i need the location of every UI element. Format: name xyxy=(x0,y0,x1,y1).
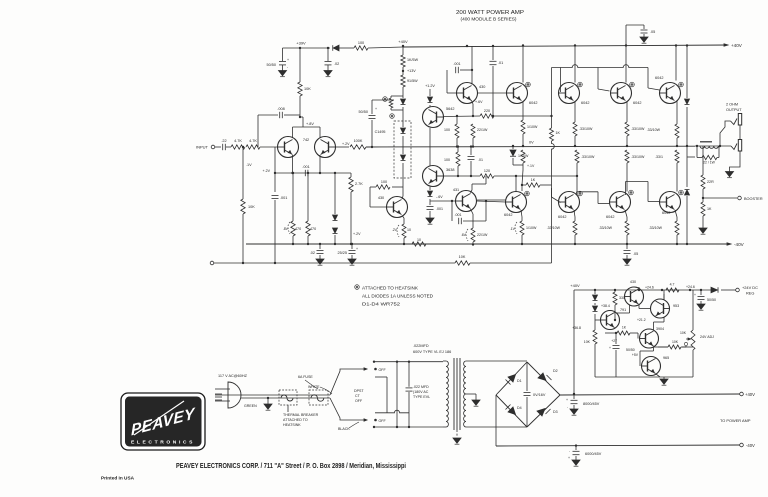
svg-text:91/5W: 91/5W xyxy=(407,79,418,83)
svg-text:22/1W: 22/1W xyxy=(477,233,488,237)
svg-text:.001: .001 xyxy=(455,213,462,217)
svg-text:1K: 1K xyxy=(622,326,627,330)
svg-text:GREEN: GREEN xyxy=(244,404,257,408)
svg-text:10K: 10K xyxy=(584,340,591,344)
svg-text:.001: .001 xyxy=(280,196,287,200)
svg-text:+.6V: +.6V xyxy=(475,100,483,104)
svg-text:BLACK: BLACK xyxy=(338,427,350,431)
svg-text:PEAVEY ELECTRONICS CORP. / 711: PEAVEY ELECTRONICS CORP. / 711 "A" Stree… xyxy=(176,463,406,470)
svg-text:.22: .22 xyxy=(221,139,226,143)
svg-text:+24V DC: +24V DC xyxy=(742,285,758,290)
svg-text:+1.2V: +1.2V xyxy=(425,84,435,88)
svg-text:742: 742 xyxy=(303,138,309,142)
svg-text:+24.6: +24.6 xyxy=(686,285,695,289)
svg-text:6A FUSE: 6A FUSE xyxy=(298,375,313,379)
svg-text:+: + xyxy=(566,398,568,402)
svg-text:+40V: +40V xyxy=(570,283,580,288)
svg-text:+: + xyxy=(694,293,696,297)
svg-text:D1: D1 xyxy=(517,379,522,383)
svg-text:6000/45V: 6000/45V xyxy=(585,452,602,456)
svg-text:1K/5W: 1K/5W xyxy=(407,58,419,62)
svg-text:2 OHM: 2 OHM xyxy=(726,103,738,107)
svg-text:.02: .02 xyxy=(334,62,339,66)
svg-text:600V TYPE VL EJ 186: 600V TYPE VL EJ 186 xyxy=(413,350,451,354)
svg-text:.33/1: .33/1 xyxy=(655,155,663,159)
svg-text:ELECTRONICS: ELECTRONICS xyxy=(131,440,195,445)
svg-text:+: + xyxy=(356,247,358,251)
svg-text:-.6V: -.6V xyxy=(436,195,443,199)
svg-text:8000/45V: 8000/45V xyxy=(583,402,600,406)
svg-text:ALL DIODES 1A UNLESS NOTED: ALL DIODES 1A UNLESS NOTED xyxy=(362,294,433,299)
svg-text:.001: .001 xyxy=(436,207,443,211)
svg-text:2.7K: 2.7K xyxy=(355,182,363,186)
svg-text:+24.6: +24.6 xyxy=(645,286,654,290)
svg-text:0V: 0V xyxy=(529,141,534,145)
svg-text:22 / 1W: 22 / 1W xyxy=(703,161,715,165)
svg-text:REG: REG xyxy=(746,291,754,296)
svg-text:D1-D4 WR752: D1-D4 WR752 xyxy=(362,302,401,307)
svg-text:OFF: OFF xyxy=(379,368,387,372)
svg-text:1K: 1K xyxy=(707,207,712,211)
svg-text:TYPE EVL: TYPE EVL xyxy=(413,395,430,399)
svg-text:100: 100 xyxy=(358,41,364,45)
svg-text:50/50: 50/50 xyxy=(358,110,368,114)
svg-text:+: + xyxy=(375,107,377,111)
svg-text:.33/10W: .33/10W xyxy=(631,127,645,131)
svg-text:.05: .05 xyxy=(650,30,655,34)
svg-text:0V/16V: 0V/16V xyxy=(533,393,546,397)
svg-text:ATTACHED TO HEATSINK: ATTACHED TO HEATSINK xyxy=(362,286,418,291)
svg-text:100: 100 xyxy=(444,158,450,162)
svg-text:430: 430 xyxy=(630,280,636,284)
svg-text:.33/10W: .33/10W xyxy=(581,155,595,159)
svg-text:.022 MFD: .022 MFD xyxy=(413,385,429,389)
svg-text:Printed in USA: Printed in USA xyxy=(101,476,135,481)
svg-text:5642: 5642 xyxy=(446,107,454,111)
svg-text:10: 10 xyxy=(407,228,411,232)
svg-text:OFF: OFF xyxy=(379,419,387,423)
svg-text:100: 100 xyxy=(381,180,387,184)
svg-text:6042: 6042 xyxy=(662,211,670,215)
svg-text:6042: 6042 xyxy=(633,101,641,105)
svg-text:.2V: .2V xyxy=(392,228,398,232)
svg-text:1/10W: 1/10W xyxy=(526,226,537,230)
svg-text:(400 MODULE B SERIES): (400 MODULE B SERIES) xyxy=(461,17,518,22)
svg-text:+36.8: +36.8 xyxy=(572,326,581,330)
svg-text:OFF: OFF xyxy=(355,399,363,403)
svg-text:+: + xyxy=(568,456,570,460)
svg-text:+21.2: +21.2 xyxy=(637,318,646,322)
svg-text:6042: 6042 xyxy=(606,215,614,219)
svg-text:24V ADJ: 24V ADJ xyxy=(700,335,714,339)
svg-text:4.7K: 4.7K xyxy=(234,139,242,143)
svg-text:6042: 6042 xyxy=(529,101,537,105)
svg-text:WHITE: WHITE xyxy=(308,385,320,389)
svg-text:+5V: +5V xyxy=(632,353,639,357)
svg-text:953: 953 xyxy=(673,304,679,308)
svg-text:.05: .05 xyxy=(633,252,638,256)
svg-text:.33/10W: .33/10W xyxy=(647,128,661,132)
svg-text:-40V: -40V xyxy=(734,242,745,247)
svg-text:.001: .001 xyxy=(302,165,309,169)
svg-text:430: 430 xyxy=(378,196,384,200)
svg-text:50/50: 50/50 xyxy=(266,63,276,67)
svg-text:470: 470 xyxy=(310,227,316,231)
svg-text:6042: 6042 xyxy=(581,101,589,105)
svg-text:6042: 6042 xyxy=(655,76,663,80)
svg-text:ATTACHED TO: ATTACHED TO xyxy=(283,418,308,422)
svg-text:430: 430 xyxy=(479,85,485,89)
svg-text:.8V: .8V xyxy=(283,227,289,231)
svg-text:.008: .008 xyxy=(277,107,284,111)
svg-text:220: 220 xyxy=(484,109,490,113)
svg-text:THERMAL BREAKER: THERMAL BREAKER xyxy=(283,413,319,417)
svg-text:4.7K: 4.7K xyxy=(249,139,257,143)
svg-text:6042: 6042 xyxy=(504,213,512,217)
svg-text:.33/10W: .33/10W xyxy=(631,155,645,159)
svg-text:+.1V: +.1V xyxy=(527,164,535,168)
svg-text:(180V AC: (180V AC xyxy=(413,390,429,394)
svg-text:117 V AC@60HZ: 117 V AC@60HZ xyxy=(218,374,248,378)
svg-text:D4: D4 xyxy=(517,406,522,410)
svg-text:10K: 10K xyxy=(248,205,255,209)
svg-text:+40V: +40V xyxy=(745,392,755,397)
svg-text:.33/10W: .33/10W xyxy=(547,226,561,230)
svg-text:+.2V: +.2V xyxy=(342,142,350,146)
svg-text:1/10W: 1/10W xyxy=(527,125,538,129)
svg-text:25/25: 25/25 xyxy=(337,251,347,255)
svg-text:6042: 6042 xyxy=(558,215,566,219)
svg-text:10K: 10K xyxy=(672,340,679,344)
svg-text:22R: 22R xyxy=(707,180,714,184)
svg-text:+: + xyxy=(287,58,289,62)
svg-text:120: 120 xyxy=(484,169,490,173)
svg-text:791: 791 xyxy=(620,308,626,312)
svg-text:+13V: +13V xyxy=(407,69,416,73)
svg-text:-40V: -40V xyxy=(746,443,755,448)
svg-text:.33/10W: .33/10W xyxy=(649,226,663,230)
svg-text:1K: 1K xyxy=(556,131,561,135)
svg-text:100: 100 xyxy=(444,128,450,132)
svg-text:+39V: +39V xyxy=(296,41,306,46)
svg-text:100K: 100K xyxy=(354,139,363,143)
svg-text:BOOSTER: BOOSTER xyxy=(744,197,763,201)
svg-text:50/50: 50/50 xyxy=(626,348,635,352)
svg-text:10K: 10K xyxy=(304,87,311,91)
svg-text:+40V: +40V xyxy=(398,39,408,44)
svg-text:DPST: DPST xyxy=(354,389,364,393)
svg-text:.01: .01 xyxy=(498,61,503,65)
svg-text:50/50: 50/50 xyxy=(707,298,716,302)
svg-text:10K: 10K xyxy=(459,255,466,259)
svg-text:+38.4: +38.4 xyxy=(601,304,610,308)
svg-text:+.8V: +.8V xyxy=(306,122,314,126)
svg-text:3904: 3904 xyxy=(656,327,664,331)
svg-text:1/10W: 1/10W xyxy=(518,154,529,158)
svg-text:OUTPUT: OUTPUT xyxy=(726,108,742,112)
svg-text:.1V: .1V xyxy=(246,163,252,167)
svg-text:470: 470 xyxy=(295,227,301,231)
svg-text:TO POWER AMP: TO POWER AMP xyxy=(720,418,751,423)
svg-text:+: + xyxy=(609,346,611,350)
svg-text:+.2V: +.2V xyxy=(353,232,361,236)
svg-text:C1495: C1495 xyxy=(375,130,386,134)
svg-text:HEATSINK: HEATSINK xyxy=(283,423,301,427)
svg-text:.33/10W: .33/10W xyxy=(599,226,613,230)
svg-text:431: 431 xyxy=(453,188,459,192)
svg-text:.01: .01 xyxy=(478,158,483,162)
svg-text:10K: 10K xyxy=(680,331,687,335)
svg-text:INPUT: INPUT xyxy=(196,145,209,150)
svg-text:4.7: 4.7 xyxy=(670,283,675,287)
svg-text:1K: 1K xyxy=(531,178,536,182)
svg-text:.6V: .6V xyxy=(461,233,467,237)
svg-text:.1V: .1V xyxy=(510,227,516,231)
svg-text:3638: 3638 xyxy=(446,168,454,172)
svg-text:.001: .001 xyxy=(453,62,460,66)
svg-text:.02: .02 xyxy=(310,251,315,255)
svg-text:22/1W: 22/1W xyxy=(477,128,488,132)
svg-text:D3: D3 xyxy=(553,410,558,414)
svg-text:965: 965 xyxy=(663,356,669,360)
svg-text:200 WATT POWER AMP: 200 WATT POWER AMP xyxy=(456,10,524,16)
svg-text:+40V: +40V xyxy=(731,43,743,48)
svg-text:+.2V: +.2V xyxy=(263,169,271,173)
svg-text:.022MFD: .022MFD xyxy=(413,344,429,348)
svg-text:D2: D2 xyxy=(553,369,558,373)
svg-text:CT: CT xyxy=(355,394,361,398)
svg-text:.33/10W: .33/10W xyxy=(579,127,593,131)
